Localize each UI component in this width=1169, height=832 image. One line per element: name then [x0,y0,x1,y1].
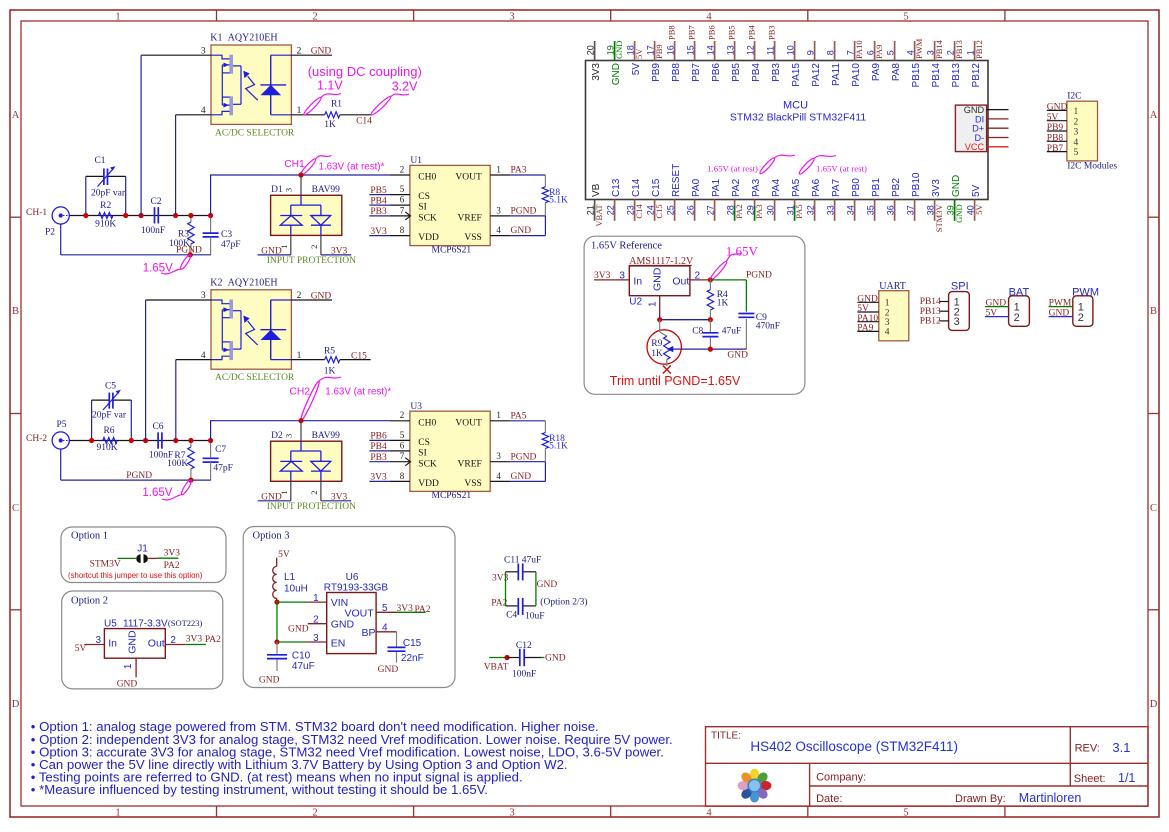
svg-text:GND: GND [614,41,624,59]
svg-text:5V: 5V [971,184,982,197]
svg-text:910K: 910K [95,220,116,230]
svg-text:PWM: PWM [1049,298,1072,308]
MCU pin 39 (GND) [945,175,964,223]
D2 internal diodes [280,441,331,481]
svg-text:3: 3 [1074,128,1079,138]
svg-text:47uF: 47uF [522,555,542,565]
U1 pin 8 label 3V3 [369,225,410,237]
svg-text:3: 3 [284,188,294,192]
capacitor C6 100nF [149,422,173,460]
svg-text:PA2: PA2 [205,635,221,645]
U3 pin 2 CH0 stub [390,410,410,421]
svg-text:BAV99: BAV99 [312,431,341,441]
U1 pin 3 to PGND [490,205,545,216]
MCU pin 25 (RESET) [665,164,682,221]
U3 pin 3 to PGND [490,451,545,462]
svg-text:STM32 BlackPill STM32F411: STM32 BlackPill STM32F411 [730,112,867,124]
svg-text:PA2: PA2 [164,561,180,571]
svg-text:PA0: PA0 [691,178,702,197]
svg-text:1: 1 [496,410,501,420]
svg-text:7: 7 [400,205,405,215]
svg-text:D1: D1 [271,185,283,195]
svg-text:PB14: PB14 [934,39,944,59]
MCU pin 29 (PA3) [745,178,764,220]
svg-text:GND: GND [511,472,532,482]
notes list [31,719,673,797]
U6 pin 1 VIN wire [274,593,326,605]
svg-text:Option 3: Option 3 [253,531,290,542]
svg-text:PA15: PA15 [791,63,802,87]
junction dots CH1 rail [83,213,213,258]
svg-text:10: 10 [785,45,795,55]
svg-text:9: 9 [805,50,815,55]
wire R1 to C14 [340,115,372,127]
wire K2 pin1 through R5 [291,359,324,361]
wires C11 C4 bracket [506,572,588,608]
svg-text:4: 4 [706,12,712,23]
svg-text:PWM: PWM [914,38,924,59]
svg-text:5: 5 [400,184,405,194]
svg-text:Out: Out [672,276,689,288]
svg-text:1.65V: 1.65V [726,244,759,259]
svg-text:3V3: 3V3 [370,227,387,237]
svg-text:GND: GND [311,47,332,57]
svg-text:GND: GND [545,653,566,663]
svg-text:PB4: PB4 [370,442,387,452]
svg-text:RESET: RESET [671,164,682,197]
capacitor C2 100nF [141,197,165,236]
svg-text:C14: C14 [356,116,372,126]
junction dots CH2 rail [89,438,213,483]
U1 pin 1 to PA3 [490,164,545,175]
U6 pin 3 EN wire [274,602,326,645]
svg-text:5: 5 [903,808,908,819]
svg-text:26: 26 [685,205,695,215]
svg-text:GND: GND [611,63,622,85]
svg-text:TITLE:: TITLE: [711,730,741,741]
U3 pin 4 to GND [490,471,545,482]
svg-text:In: In [108,637,117,649]
svg-text:5V: 5V [634,48,644,59]
Option 2 sheet box [62,591,223,689]
svg-text:PB15: PB15 [911,63,922,88]
svg-text:C: C [12,503,19,514]
svg-text:PB4: PB4 [370,196,387,206]
wire CH1 net line [211,175,390,216]
op-amp U1 MCP6S21 body [410,156,490,255]
svg-text:VBAT: VBAT [484,662,509,672]
svg-text:5V: 5V [974,204,984,215]
MCU pin 17 (PB9) [645,41,664,82]
svg-text:4: 4 [1074,138,1079,148]
optocoupler K2 AQY210EH body [210,277,295,383]
svg-text:PA3: PA3 [511,166,527,176]
svg-text:PB13: PB13 [920,307,941,317]
svg-text:1: 1 [313,593,319,604]
svg-text:C15: C15 [403,638,422,649]
svg-text:4: 4 [706,808,712,819]
MCU STM32 BlackPill STM32F411 [586,61,989,200]
svg-text:5V: 5V [278,550,290,560]
svg-text:1.63V (at rest)*: 1.63V (at rest)* [319,162,385,173]
svg-text:PB6: PB6 [370,432,387,442]
svg-text:1K: 1K [324,366,336,376]
MCU pin 4 (PB15) [905,38,924,87]
svg-text:U1: U1 [410,156,422,166]
svg-text:PB0: PB0 [851,178,862,197]
svg-text:U2: U2 [629,297,642,308]
svg-text:3.1: 3.1 [1112,740,1130,755]
svg-text:3.2V: 3.2V [392,80,418,94]
U6 pin 4 BP and capacitor C15 22nF [376,622,424,674]
U5 pin 1 GND [117,658,138,689]
svg-text:100K: 100K [167,459,188,469]
svg-text:25: 25 [665,205,675,215]
K1 pin numbers [201,46,302,116]
svg-text:Martinloren: Martinloren [1019,791,1082,805]
MCU pin 15 (PB7) [685,25,702,82]
svg-text:3: 3 [509,12,514,23]
wire CH1 input rail [69,215,210,217]
MCU pin 5 (PA8) [885,41,902,81]
title block [706,727,1149,807]
svg-text:2: 2 [312,12,317,23]
D1 pin 1 to GND [258,235,291,256]
svg-text:Option 2: Option 2 [71,595,108,606]
labels 3V3 PA2 option1 [164,549,181,572]
svg-text:PA1: PA1 [711,178,722,197]
svg-text:Sheet:: Sheet: [1074,773,1106,785]
wire K1 pin4 riser [176,115,211,216]
D1 pin 2 to 3V3 [309,235,351,256]
svg-text:R1: R1 [331,99,342,109]
MCU pin 24 (C15) [645,178,664,221]
U3 pin 5 label PB6 [369,430,410,442]
svg-text:A: A [1150,110,1158,121]
svg-text:32: 32 [805,205,815,215]
svg-text:2: 2 [313,615,319,626]
node CH2 label and test point 1.63V [289,377,391,423]
svg-text:PA6: PA6 [811,178,822,197]
capacitor C10 47uF [259,642,315,686]
svg-text:PA2: PA2 [731,178,742,197]
svg-text:A: A [12,110,20,121]
svg-text:10uF: 10uF [525,611,545,621]
MCU pin 34 (PB0) [845,178,862,221]
svg-text:GND: GND [537,580,558,590]
svg-text:PB1: PB1 [871,178,882,197]
U2 pin 3 3V3 input [594,271,629,282]
svg-text:PA10: PA10 [854,40,864,59]
svg-text:VREF: VREF [458,214,482,224]
svg-text:PB3: PB3 [370,453,387,463]
MCU pin 10 (PA15) [785,41,802,87]
svg-text:1117-3.3V: 1117-3.3V [123,618,168,629]
svg-text:P5: P5 [57,420,67,430]
svg-text:15: 15 [685,45,695,55]
svg-text:C14: C14 [634,204,644,219]
connector BAT [985,286,1029,326]
connector SPI [920,281,970,331]
svg-text:MCP6S21: MCP6S21 [432,245,472,255]
svg-text:C5: C5 [105,382,116,392]
svg-text:Drawn By:: Drawn By: [955,793,1006,805]
test point 1.65V at reference output [709,244,759,282]
svg-text:PB13: PB13 [954,40,964,59]
D2 pin 1 to GND [258,481,291,502]
svg-text:2: 2 [1014,312,1020,324]
wire K1 pin3 riser [141,55,211,215]
svg-text:GND: GND [288,625,309,635]
svg-text:PB10: PB10 [911,172,922,197]
svg-text:D: D [12,699,20,710]
wire PGND rail CH1 [61,224,211,255]
svg-text:AQY210EH: AQY210EH [228,33,278,44]
test point 1.1V [302,79,343,117]
svg-text:U5: U5 [104,618,117,629]
MCU pin 7 (PA10) [845,40,864,86]
svg-text:PB8: PB8 [666,25,676,40]
svg-text:PA12: PA12 [811,63,822,87]
svg-text:1.63V (at rest)*: 1.63V (at rest)* [325,387,391,398]
MCU pin 23 (C14) [625,178,644,221]
svg-text:PA9: PA9 [857,324,873,334]
svg-text:470nF: 470nF [756,322,780,332]
MCU pin 22 (C13) [605,178,622,221]
title block texts [711,730,1135,805]
svg-text:PA3: PA3 [751,178,762,197]
test point 1.65V on CH1 PGND [143,254,192,275]
connector P2 CH-1 BNC [26,207,69,238]
svg-text:PB5: PB5 [731,63,742,82]
wire K2 pin4 riser [176,360,211,441]
capacitor C1 20pF var [86,156,126,216]
svg-text:2: 2 [309,491,319,495]
svg-text:37: 37 [905,205,915,215]
svg-text:Out: Out [148,637,165,649]
svg-text:VDD: VDD [418,479,439,489]
svg-text:PA2: PA2 [734,204,744,218]
svg-text:GND: GND [727,350,748,360]
svg-text:3: 3 [284,434,294,438]
svg-text:CS: CS [418,192,430,202]
svg-text:PB9: PB9 [1047,123,1064,133]
U3 pin 1 to PA5 [490,410,545,421]
svg-text:2: 2 [400,410,405,420]
svg-text:6: 6 [400,195,405,205]
svg-text:VB: VB [591,183,602,197]
MCU pin 21 (VB) [585,183,604,226]
test point 1.65V (at rest) on PA3 [707,155,795,175]
svg-text:• *Measure influenced by testi: • *Measure influenced by testing instrum… [31,782,488,797]
svg-text:STM3V: STM3V [90,559,121,569]
svg-text:K1: K1 [210,33,222,44]
regulator U6 RT9193-33GB [324,572,389,654]
svg-text:PB5: PB5 [370,186,387,196]
capacitor C8 47uF [692,320,741,349]
MCU pin 28 (PA2) [725,178,744,220]
svg-text:PB4: PB4 [751,63,762,82]
svg-text:20pF var: 20pF var [92,410,127,420]
svg-text:2: 2 [1074,117,1079,127]
MCU pin 40 (5V) [965,184,984,220]
svg-text:SPI: SPI [951,281,969,293]
1.65V Reference sheet box [584,236,805,394]
Option 1 sheet box [61,527,226,583]
svg-text:2: 2 [695,271,701,282]
svg-text:PB3: PB3 [771,63,782,82]
svg-text:PB14: PB14 [920,297,941,307]
svg-text:4: 4 [496,471,501,481]
svg-text:PB13: PB13 [951,63,962,88]
capacitor C5 20pF var [92,382,132,441]
svg-text:U3: U3 [410,402,422,412]
svg-text:30: 30 [765,205,775,215]
svg-text:AQY210EH: AQY210EH [228,277,278,288]
svg-text:1K: 1K [324,120,336,130]
svg-text:VCC: VCC [965,142,985,152]
label 5V option3 [277,550,290,566]
U5 pin 2 output to 3V3 PA2 [165,634,221,646]
resistor R8 5.1K [542,175,568,236]
op-amp U3 MCP6S21 body [410,402,490,501]
svg-text:1.65V Reference: 1.65V Reference [591,241,662,252]
svg-text:SCK: SCK [418,214,437,224]
wire CH2 net line [211,421,390,441]
svg-text:C4: C4 [506,611,517,621]
wire K1 pin2 to GND [291,47,332,57]
MCU pin 32 (PA6) [805,178,822,220]
svg-text:1: 1 [885,299,890,309]
MCU pin 38 (3V3) [925,179,944,233]
svg-text:GND: GND [259,676,280,686]
svg-text:U6: U6 [346,572,359,583]
svg-text:14: 14 [705,45,715,55]
svg-text:PA5: PA5 [794,204,804,218]
svg-text:47pF: 47pF [221,240,241,250]
svg-text:12: 12 [745,45,755,55]
svg-text:PA10: PA10 [857,314,878,324]
U3 pin 8 label 3V3 [369,471,410,483]
svg-text:SI: SI [418,203,426,213]
svg-text:GND: GND [857,294,878,304]
svg-text:GND: GND [311,291,332,301]
svg-text:1.1V: 1.1V [317,79,343,93]
svg-text:100nF: 100nF [512,669,536,679]
svg-text:PGND: PGND [126,471,152,481]
svg-text:1: 1 [123,663,134,669]
svg-text:B: B [1150,306,1157,317]
svg-text:D2: D2 [271,431,283,441]
svg-text:3: 3 [954,316,960,328]
svg-text:3: 3 [619,271,625,282]
svg-text:27: 27 [705,205,715,215]
U2 pin 2 output [690,271,713,283]
wire K1 pin1 through R1 [291,114,324,116]
resistor R3 100K [169,216,194,255]
svg-text:CS: CS [418,438,430,448]
MCU pin 36 (PB2) [885,178,902,221]
svg-text:3V3: 3V3 [591,63,602,81]
svg-text:CH0: CH0 [418,418,436,428]
svg-text:35: 35 [865,205,875,215]
svg-text:VDD: VDD [418,233,439,243]
svg-text:3: 3 [885,318,890,328]
svg-text:5: 5 [903,12,908,23]
test point 3.2V [370,80,418,117]
svg-text:5V: 5V [986,308,998,318]
svg-text:GND: GND [117,680,138,690]
svg-text:MCP6S21: MCP6S21 [432,491,472,501]
svg-text:8: 8 [400,471,405,481]
svg-text:R3: R3 [178,230,189,240]
MCU pin 33 (PA7) [825,178,842,220]
svg-text:1: 1 [1074,107,1079,117]
MCU pin 31 (PA5) [785,178,804,220]
svg-text:PA8: PA8 [891,63,902,82]
svg-text:L1: L1 [284,572,296,583]
svg-text:CH2: CH2 [289,386,310,397]
U6 pin 5 VOUT to 3V3 PA2 [376,603,431,615]
svg-text:R6: R6 [103,426,114,436]
svg-text:1: 1 [496,164,501,174]
svg-text:3V3: 3V3 [186,634,203,644]
svg-text:PB7: PB7 [691,63,702,82]
svg-text:PA5: PA5 [511,411,527,421]
svg-text:In: In [633,276,642,288]
svg-text:1K: 1K [717,298,729,308]
resistor R1 1K [324,99,342,130]
svg-text:2: 2 [1078,312,1084,324]
svg-text:PB8: PB8 [1047,134,1064,144]
MCU USB connector block [955,105,1008,152]
svg-text:1.65V (at rest): 1.65V (at rest) [816,164,867,174]
svg-text:22: 22 [605,205,615,215]
svg-text:C15: C15 [351,352,367,362]
svg-text:16: 16 [665,45,675,55]
svg-text:PB3: PB3 [370,207,387,217]
svg-text:PB7: PB7 [1047,144,1064,154]
resistor R6 910K [96,426,117,453]
svg-text:3V3: 3V3 [164,549,181,559]
svg-text:B: B [12,306,19,317]
K1 photodiode LED [243,55,291,115]
svg-text:3: 3 [313,633,319,644]
U3 pin 7 label PB3 [369,451,410,463]
optocoupler K1 AQY210EH body [210,33,295,139]
MCU pin 13 (PB5) [725,25,742,82]
capacitor C7 47pF [203,441,233,481]
svg-text:PA9: PA9 [871,63,882,82]
svg-text:GND: GND [511,226,532,236]
D1 internal diodes [280,195,331,235]
svg-text:I2C: I2C [1067,91,1081,101]
svg-text:1: 1 [648,301,659,307]
MCU pin 27 (PA1) [705,178,722,220]
svg-text:22nF: 22nF [401,653,424,664]
svg-text:PB12: PB12 [971,63,982,88]
svg-text:K2: K2 [210,277,222,288]
svg-text:34: 34 [845,205,855,215]
svg-text:(Option 2/3): (Option 2/3) [540,597,587,608]
svg-text:VREF: VREF [458,459,482,469]
MCU pin 26 (PA0) [685,178,702,220]
svg-text:2: 2 [309,245,319,249]
K1 MOSFET pair [211,55,241,116]
test point 1.65V on CH2 PGND [142,479,192,500]
svg-text:HS402 Oscilloscope (STM32F411): HS402 Oscilloscope (STM32F411) [750,739,958,754]
svg-text:PB7: PB7 [686,25,696,40]
